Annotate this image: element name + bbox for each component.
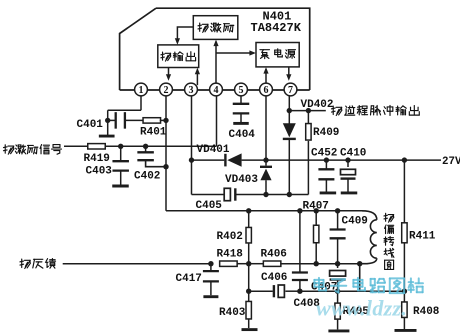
capacitor C417 bbox=[210, 264, 212, 271]
svg-text:R401: R401 bbox=[140, 126, 167, 138]
capacitor C452 bbox=[325, 160, 327, 169]
resistor R419 bbox=[88, 144, 106, 149]
svg-text:R407: R407 bbox=[303, 201, 329, 213]
diode VD403 bbox=[265, 160, 267, 165]
junction VD402/pump bbox=[287, 192, 292, 197]
pin 3 bbox=[185, 83, 198, 96]
pin 1 bbox=[135, 83, 148, 96]
svg-text:1: 1 bbox=[139, 85, 144, 96]
svg-text:www.ldzz.: www.ldzz. bbox=[316, 296, 407, 321]
wire: 场激励 to 场输出 with arrow bbox=[177, 27, 193, 42]
junction C409 on rail bbox=[335, 208, 340, 213]
wire: 27V bus bbox=[266, 159, 441, 161]
block: field output 场输出 bbox=[158, 45, 199, 68]
capacitor C407 electrolytic bbox=[337, 264, 339, 268]
junction C407/R405 bbox=[335, 289, 340, 294]
junction C417 bbox=[208, 261, 213, 266]
diode VD401 bbox=[224, 154, 226, 167]
svg-text:R419: R419 bbox=[84, 153, 110, 165]
pin 7 bbox=[284, 83, 297, 96]
svg-text:27V: 27V bbox=[442, 156, 460, 168]
wire: feedback to C409 node bbox=[316, 263, 360, 265]
wire: pin6 stub to bus bbox=[265, 96, 267, 161]
svg-text:6: 6 bbox=[264, 85, 269, 96]
svg-text:C402: C402 bbox=[134, 171, 160, 183]
wire: feedback line bbox=[63, 263, 212, 265]
junction C410 on bus bbox=[345, 157, 350, 162]
ground bar (C410) bbox=[341, 191, 358, 194]
wire: pin3 vertical down bbox=[191, 96, 193, 195]
wire: coil bottom to lower rail bbox=[359, 264, 361, 292]
capacitor C404 bbox=[233, 103, 250, 105]
capacitor C410 electrolytic bbox=[347, 160, 349, 167]
wire: C403 to ground bbox=[120, 171, 122, 185]
resistor R408 bbox=[403, 291, 405, 302]
wire: pin4 up to 场激励 arrow bbox=[215, 42, 217, 86]
ground bar (C403) bbox=[112, 185, 129, 188]
pin 2 bbox=[160, 83, 173, 96]
label 场激励信号 field drive signal bbox=[4, 145, 14, 154]
capacitor C401 bbox=[115, 112, 117, 128]
junction C452 on bus bbox=[324, 157, 329, 162]
junction VD403/pump bbox=[263, 192, 268, 197]
svg-text:4: 4 bbox=[214, 85, 219, 96]
capacitor C406 electrolytic bbox=[273, 285, 275, 297]
junction R407 on rail bbox=[314, 208, 319, 213]
wire: pump line from pin3 bbox=[192, 194, 224, 196]
svg-text:C401: C401 bbox=[77, 119, 104, 131]
block: field driver 场激励 bbox=[193, 16, 238, 40]
resistor R418 bbox=[211, 263, 212, 265]
svg-text:R418: R418 bbox=[217, 249, 244, 261]
wire: C401 row bbox=[108, 119, 115, 121]
svg-text:R408: R408 bbox=[413, 306, 440, 318]
wire: pin3 to 场输出 arrow bbox=[196, 70, 198, 86]
capacitor C403 bbox=[112, 160, 129, 162]
capacitor C408 bbox=[292, 271, 308, 273]
resistor R401 bbox=[143, 118, 161, 123]
svg-text:C406: C406 bbox=[261, 272, 287, 284]
ground bar (C417) bbox=[203, 295, 218, 298]
junction R407/R406 bbox=[314, 261, 319, 266]
wire: signal line corner up to pin4 bbox=[216, 96, 218, 147]
wire: pin2 vertical down bbox=[165, 96, 167, 211]
wire: retrace output line bbox=[289, 110, 326, 112]
junction lower rail left bbox=[246, 289, 251, 294]
diode VD402 bbox=[283, 123, 296, 137]
junction pin7/output line bbox=[287, 108, 292, 113]
svg-text:7: 7 bbox=[288, 85, 293, 96]
junction C409/C407 bbox=[335, 261, 340, 266]
svg-text:VD403: VD403 bbox=[225, 174, 258, 186]
label 场偏转线圈 field deflection coil (vertical) bbox=[384, 213, 394, 222]
junction C403 tap bbox=[118, 144, 123, 149]
IC N401 TA8427K outline bbox=[156, 8, 310, 90]
svg-text:2: 2 bbox=[164, 85, 169, 96]
junction R409/output bbox=[306, 108, 311, 113]
junction R401/pin2 net bbox=[163, 118, 168, 123]
wire: branch pin4 to 泵电源 arrow bbox=[216, 52, 254, 54]
wire: pin7 stub bbox=[288, 96, 290, 124]
ground bar (R403) bbox=[242, 328, 258, 331]
svg-text:R403: R403 bbox=[219, 307, 246, 319]
ground bar (R408) bbox=[395, 329, 417, 332]
pin 4 bbox=[210, 83, 223, 96]
svg-text:C417: C417 bbox=[176, 273, 202, 285]
svg-text:C404: C404 bbox=[229, 129, 256, 141]
wire: C408 vertical from rail bbox=[299, 211, 301, 273]
resistor R409 bbox=[307, 111, 309, 123]
capacitor C405 electrolytic bbox=[224, 188, 230, 200]
label 场反馈 field feedback bbox=[20, 259, 30, 268]
svg-text:VD401: VD401 bbox=[197, 144, 230, 156]
wire: C402 bottom to pin2 net bbox=[146, 160, 166, 167]
junction R411/R408 bbox=[402, 289, 407, 294]
svg-text:VD402: VD402 bbox=[301, 99, 334, 111]
svg-text:R402: R402 bbox=[217, 231, 243, 243]
wire: IC bottom edge through pins bbox=[120, 89, 310, 91]
wire: lower rail middle bbox=[300, 290, 338, 292]
junction C402/pin2 net bbox=[163, 164, 168, 169]
junction R402/R418/R406 bbox=[246, 261, 251, 266]
ground bar (C404) bbox=[233, 122, 249, 125]
resistor R402 bbox=[248, 211, 250, 228]
wire: bus segment to VD401 bbox=[192, 159, 225, 161]
svg-text:C410: C410 bbox=[340, 147, 366, 159]
junction R411 on bus bbox=[402, 157, 407, 162]
node: C401 ground lead bbox=[107, 120, 109, 135]
watermark 电子电路图站 bbox=[314, 278, 326, 291]
svg-text:C403: C403 bbox=[86, 165, 113, 177]
wire: pin1 stub down bbox=[140, 96, 142, 111]
block: pump power 泵电源 bbox=[256, 43, 299, 67]
junction C401/ground bbox=[105, 118, 110, 123]
label 场逆程脉冲输出 field retrace pulse output bbox=[332, 106, 342, 115]
wire: lower rail to C406 bbox=[249, 290, 273, 292]
resistor R411 bbox=[403, 160, 405, 223]
resistor R405 bbox=[337, 291, 339, 303]
svg-text:5: 5 bbox=[239, 85, 244, 96]
svg-text:3: 3 bbox=[189, 85, 194, 96]
junction pin3/bus bbox=[189, 157, 194, 162]
junction C402 tap bbox=[143, 144, 148, 149]
wire: 场输出 to pin2 arrow bbox=[168, 68, 170, 79]
pin 5 bbox=[235, 83, 248, 96]
wire: drive signal line bbox=[64, 145, 88, 147]
capacitor C402 bbox=[137, 151, 154, 153]
pin 6 bbox=[260, 83, 273, 96]
junction R402 on rail bbox=[246, 208, 251, 213]
wire: R402/R403 vertical bbox=[248, 264, 250, 302]
svg-text:R406: R406 bbox=[261, 249, 287, 261]
resistor R406 bbox=[249, 263, 264, 265]
resistor R403 bbox=[246, 301, 251, 319]
wire: mid rail from pin2 corner bbox=[166, 210, 362, 212]
svg-text:R409: R409 bbox=[313, 127, 339, 139]
svg-text:R411: R411 bbox=[409, 230, 436, 242]
junction bus/pin6/VD403 bbox=[263, 157, 268, 162]
junction C408 bottom bbox=[297, 289, 302, 294]
capacitor C402 lead bbox=[145, 146, 147, 152]
svg-text:C452: C452 bbox=[311, 147, 337, 159]
ground bar (C452) bbox=[320, 191, 337, 194]
svg-text:TA8427K: TA8427K bbox=[251, 21, 302, 35]
resistor R407 bbox=[315, 211, 317, 225]
capacitor C409 bbox=[337, 211, 339, 230]
svg-text:C409: C409 bbox=[342, 215, 368, 227]
ground bar (R405) bbox=[328, 329, 349, 332]
svg-text:C405: C405 bbox=[196, 200, 223, 212]
wire: pin1 jog left bbox=[108, 109, 141, 111]
wire: pin5 stub bbox=[240, 96, 242, 104]
junction C408 net on rail bbox=[297, 208, 302, 213]
ground bar (C401) bbox=[99, 135, 115, 138]
wire: lower rail right bbox=[338, 290, 405, 292]
wire: C404 to ground bbox=[240, 113, 242, 122]
junction coil bottom bbox=[357, 261, 362, 266]
wire: pump line corner up to R409 bbox=[307, 141, 309, 195]
capacitor C403 lead bbox=[120, 146, 122, 161]
wire: pin6 to 泵电源 arrow bbox=[265, 69, 267, 85]
wire: 泵电源 down to pin7 arrow bbox=[288, 67, 290, 79]
deflection coil bbox=[360, 211, 377, 264]
